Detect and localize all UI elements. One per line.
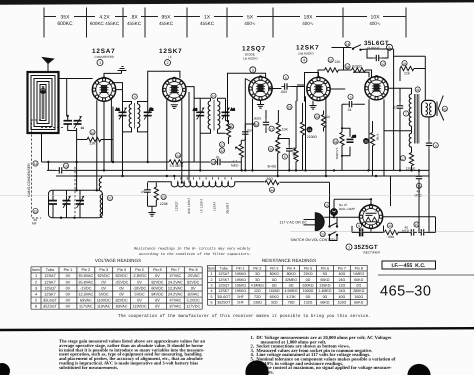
svg-text:.0005: .0005	[253, 116, 261, 120]
svg-text:103Ω: 103Ω	[337, 301, 346, 305]
junction dots power	[333, 198, 372, 218]
svg-text:1200Ω: 1200Ω	[406, 166, 416, 170]
svg-text:0Ω: 0Ω	[289, 284, 294, 288]
svg-text:0V: 0V	[66, 298, 71, 302]
svg-text:RECTIFIER: RECTIFIER	[364, 250, 381, 254]
V3 cathode ground	[257, 100, 264, 108]
circled 29	[287, 104, 292, 109]
svg-text:21: 21	[108, 197, 112, 201]
svg-text:39Ω: 39Ω	[267, 177, 274, 181]
svg-text:0Ω: 0Ω	[306, 278, 311, 282]
circled 23	[161, 194, 166, 199]
svg-text:600KC: 600KC	[57, 21, 73, 27]
label 40 MF	[32, 218, 37, 226]
svg-text:12SK7: 12SK7	[218, 278, 229, 282]
svg-text:0V: 0V	[137, 280, 142, 284]
circled 31	[307, 127, 312, 132]
circled 16b	[416, 183, 421, 188]
svg-text:47VAC: 47VAC	[169, 298, 181, 302]
svg-text:16: 16	[81, 126, 85, 130]
svg-text:2: 2	[35, 280, 37, 284]
cap .02 plate V5	[392, 101, 403, 171]
svg-text:22K: 22K	[335, 60, 342, 64]
svg-text:5VDC: 5VDC	[99, 292, 109, 296]
T1 vertical wires	[123, 71, 180, 176]
svg-text:117VAC: 117VAC	[79, 305, 93, 309]
svg-text:35Z5GT: 35Z5GT	[217, 301, 231, 305]
circled 4	[301, 57, 307, 63]
circled 6	[283, 75, 288, 80]
circled 30	[268, 146, 273, 151]
svg-text:63VAC: 63VAC	[80, 298, 92, 302]
svg-text:10X: 10X	[371, 15, 381, 21]
svg-text:35.8VAC: 35.8VAC	[78, 280, 93, 284]
T2 vertical wires	[200, 121, 228, 171]
circled 10b	[63, 163, 68, 168]
svg-text:12SQ7: 12SQ7	[175, 201, 179, 211]
svg-text:Resistance readings in the B–: Resistance readings in the B– circuits m…	[134, 247, 251, 252]
svg-text:Pin 6: Pin 6	[153, 268, 162, 272]
pilot lamp	[331, 209, 338, 216]
svg-text:0Ω: 0Ω	[356, 284, 361, 288]
svg-text:A4: A4	[231, 108, 235, 112]
svg-text:30: 30	[269, 148, 273, 152]
cap .0005	[253, 110, 269, 133]
svg-text:0V: 0V	[137, 298, 142, 302]
svg-text:455KC: 455KC	[200, 21, 215, 26]
circled 10	[211, 93, 216, 98]
svg-text:12SQ7: 12SQ7	[218, 284, 229, 288]
circled 1	[97, 60, 103, 66]
tube V2 12SK7	[163, 77, 186, 102]
svg-text:.05: .05	[215, 156, 220, 160]
bus heater cord	[148, 182, 330, 218]
junction dots on buses	[47, 161, 420, 184]
svg-text:31: 31	[308, 128, 312, 132]
label 12SK7 2nd audio	[296, 45, 320, 56]
svg-text:7: 7	[405, 112, 407, 116]
svg-text:119VDC: 119VDC	[133, 305, 147, 309]
tube V6 35Z5GT rectifier	[359, 204, 382, 229]
svg-text:15: 15	[34, 210, 38, 214]
svg-text:Pin 2: Pin 2	[253, 266, 261, 270]
tube V5 35L6GT	[365, 75, 388, 100]
filament string	[171, 182, 235, 187]
svg-text:22K: 22K	[404, 72, 411, 76]
svg-text:82VDC: 82VDC	[98, 274, 110, 278]
svg-text:8200Ω: 8200Ω	[352, 65, 363, 69]
svg-text:400∿: 400∿	[369, 21, 381, 26]
svg-text:400∿: 400∿	[244, 21, 256, 26]
svg-text:Pin 7: Pin 7	[171, 268, 180, 272]
svg-text:0Ω: 0Ω	[272, 284, 277, 288]
svg-text:1: 1	[348, 246, 350, 250]
svg-text:12Ω: 12Ω	[254, 289, 261, 293]
V2 cathode ground	[171, 105, 178, 109]
svg-text:AVC 12SK7: AVC 12SK7	[187, 197, 191, 214]
svg-text:5.2VDC: 5.2VDC	[187, 298, 201, 302]
svg-text:66KΩ: 66KΩ	[270, 295, 279, 299]
series cap 10 in bus	[56, 167, 65, 173]
svg-text:.02: .02	[392, 106, 397, 110]
punch hole center	[245, 360, 268, 375]
svg-text:Pin 1: Pin 1	[64, 268, 73, 272]
svg-text:5X: 5X	[247, 15, 254, 21]
svg-text:130Ω: 130Ω	[253, 301, 262, 305]
svg-text:substituted for measurements.: substituted for measurements.	[59, 365, 118, 370]
svg-text:0V: 0V	[101, 280, 106, 284]
svg-text:66KΩ: 66KΩ	[354, 301, 363, 305]
circled 13a	[33, 161, 38, 166]
svg-text:23: 23	[162, 196, 166, 200]
svg-text:according to the condition of: according to the condition of the filter…	[139, 252, 251, 257]
electrolytic 40MFD lower	[402, 225, 436, 235]
series cap in AVC	[214, 156, 223, 166]
junction dot grid	[67, 115, 69, 117]
resistor 1.5MEG grid V5	[335, 104, 344, 170]
svg-text:0V: 0V	[66, 274, 71, 278]
tuning capacitor C1A	[64, 116, 73, 126]
italic note about resistance readings	[134, 247, 251, 258]
svg-text:32Ω: 32Ω	[271, 301, 278, 305]
ground bias	[148, 206, 157, 216]
circled 20	[90, 130, 95, 135]
AVC wire down from 22K	[112, 107, 114, 163]
svg-text:20: 20	[327, 115, 331, 119]
label 35L6GT output	[364, 40, 389, 50]
svg-text:82VDC: 82VDC	[187, 280, 199, 284]
cathode bypass resistor right	[321, 111, 330, 132]
svg-text:195KΩ: 195KΩ	[235, 272, 246, 276]
model number 465-30	[380, 284, 431, 300]
svg-text:465–30: 465–30	[380, 284, 431, 300]
svg-text:4.7 MEG: 4.7 MEG	[293, 147, 297, 160]
osc padder trimmers	[49, 190, 84, 217]
svg-text:400∿: 400∿	[302, 21, 314, 26]
IF transformer T2	[200, 98, 225, 133]
svg-text:I.F.: I.F.	[168, 55, 172, 59]
bottom left paragraph	[59, 339, 205, 370]
circled 26a on AVC	[211, 159, 216, 164]
svg-text:0V: 0V	[66, 305, 71, 309]
T2 trimmer A4	[222, 98, 235, 120]
svg-text:14: 14	[346, 42, 350, 46]
svg-text:4.2X: 4.2X	[99, 15, 110, 21]
svg-text:0V: 0V	[66, 280, 71, 284]
svg-text:35L6GT: 35L6GT	[226, 203, 230, 214]
V4 cathode resistor 2200	[300, 103, 317, 170]
IF-455 KC box	[382, 261, 436, 269]
circled 34	[333, 139, 338, 144]
V2 pin wires	[167, 92, 189, 183]
tube V3 12SQ7	[249, 75, 272, 100]
svg-text:12.3VAC: 12.3VAC	[78, 292, 93, 296]
volume control 4.7MEG	[231, 140, 243, 170]
svg-text:The cooperation of the manufac: The cooperation of the manufacturer of t…	[118, 313, 371, 319]
svg-text:-1VDC: -1VDC	[80, 286, 92, 290]
svg-text:160Ω: 160Ω	[354, 295, 363, 299]
svg-text:MEG: MEG	[231, 163, 239, 167]
svg-text:470K: 470K	[375, 134, 379, 141]
bus B minus	[56, 175, 429, 177]
dial ruler labels	[56, 14, 383, 28]
svg-text:1000Ω: 1000Ω	[303, 289, 314, 293]
circled 7	[403, 111, 408, 116]
svg-text:4: 4	[35, 292, 37, 296]
svg-text:10K: 10K	[282, 128, 289, 132]
circled 8b	[433, 143, 438, 148]
T1 trimmer A2	[144, 102, 154, 132]
circled 1b	[346, 244, 352, 250]
svg-text:-2.8VDC: -2.8VDC	[132, 274, 147, 278]
svg-text:6: 6	[35, 305, 37, 309]
svg-text:41: 41	[416, 88, 420, 92]
tuning trimmer 16	[74, 116, 82, 129]
circled 27	[219, 142, 224, 147]
svg-text:60VDC: 60VDC	[151, 286, 163, 290]
svg-text:VOLTAGE READINGS: VOLTAGE READINGS	[95, 258, 141, 263]
svg-text:1st AUDIO: 1st AUDIO	[243, 56, 258, 60]
cap .05 parallel	[342, 128, 356, 156]
tube V4 12SK7	[307, 76, 330, 101]
svg-text:117 V AC OR DC: 117 V AC OR DC	[280, 220, 308, 224]
svg-text:455KC: 455KC	[127, 21, 142, 26]
svg-text:Pin 8: Pin 8	[189, 268, 198, 272]
voltage readings table title	[95, 258, 141, 263]
svg-text:0Ω: 0Ω	[306, 295, 311, 299]
svg-text:Pin 5: Pin 5	[304, 266, 312, 270]
label B+55	[267, 164, 280, 169]
svg-text:135KΩ: 135KΩ	[319, 284, 330, 288]
svg-text:12SK7: 12SK7	[44, 292, 55, 296]
svg-text:0V: 0V	[119, 286, 124, 290]
svg-text:A1: A1	[116, 108, 120, 112]
circled 21b	[269, 126, 274, 131]
tone cap	[367, 49, 388, 61]
svg-text:0Ω: 0Ω	[272, 278, 277, 282]
svg-text:12SA7: 12SA7	[213, 201, 217, 211]
svg-text:30VAC: 30VAC	[187, 292, 199, 296]
svg-text:4: 4	[303, 59, 305, 63]
svg-text:530KΩ: 530KΩ	[302, 284, 313, 288]
svg-text:1X: 1X	[204, 15, 211, 21]
wire loop to grid	[59, 79, 93, 117]
svg-text:1: 1	[99, 61, 101, 65]
svg-text:5: 5	[35, 298, 37, 302]
electrolytic 40MFD upper	[415, 170, 423, 197]
svg-text:1: 1	[35, 274, 37, 278]
cap filter right	[426, 117, 432, 232]
svg-text:12Ω: 12Ω	[338, 284, 345, 288]
T2 trimmer A3	[193, 98, 204, 133]
svg-text:21: 21	[270, 127, 274, 131]
coupling cap .01	[342, 101, 365, 112]
resistor 3.3MEG in AVC	[169, 160, 184, 168]
svg-text:117VDC: 117VDC	[186, 305, 200, 309]
circled 26	[345, 64, 350, 69]
V1 grid cap wire	[104, 73, 122, 78]
cap 0.1MF	[278, 139, 295, 171]
svg-text:78Ω: 78Ω	[288, 301, 295, 305]
gang condenser dashed box	[32, 120, 76, 218]
svg-text:72Ω: 72Ω	[254, 295, 261, 299]
resistor 220K bias	[154, 183, 168, 207]
svg-text:82VDC: 82VDC	[116, 298, 128, 302]
svg-text:Tube: Tube	[46, 268, 55, 272]
svg-text:44: 44	[270, 188, 274, 192]
label 16	[81, 126, 85, 130]
faint scan lines	[0, 195, 474, 231]
svg-text:5: 5	[284, 155, 286, 159]
svg-text:0V: 0V	[155, 298, 160, 302]
svg-text:Item: Item	[208, 266, 215, 270]
svg-text:8: 8	[134, 95, 136, 99]
diode caps 250	[242, 129, 252, 138]
svg-text:33: 33	[315, 115, 319, 119]
circled 32	[219, 148, 224, 153]
svg-text:10: 10	[64, 164, 68, 168]
circled 20b	[320, 231, 325, 236]
svg-text:3: 3	[211, 284, 213, 288]
svg-text:455KC: 455KC	[159, 21, 174, 26]
svg-text:119VAC: 119VAC	[97, 305, 111, 309]
circled 3b	[348, 94, 353, 99]
svg-text:Pin 4: Pin 4	[117, 268, 126, 272]
gang condenser label	[27, 163, 31, 197]
punch hole right	[407, 364, 430, 375]
grid cap comb	[118, 67, 127, 74]
voltage readings table	[31, 267, 202, 309]
svg-text:6: 6	[211, 301, 213, 305]
svg-text:280KΩ: 280KΩ	[353, 289, 364, 293]
svg-text:80KΩ: 80KΩ	[287, 272, 296, 276]
circled 33	[314, 114, 319, 119]
circled 21	[107, 195, 112, 200]
svg-text:20: 20	[321, 233, 325, 237]
svg-text:12SA7: 12SA7	[218, 272, 229, 276]
svg-text:5Ω: 5Ω	[323, 272, 328, 276]
svg-text:5: 5	[211, 295, 213, 299]
oscillator section loop	[49, 190, 103, 217]
svg-text:12SQ7: 12SQ7	[44, 286, 56, 290]
resistor 4.7MEG grid V4	[293, 101, 299, 171]
svg-text:3: 3	[252, 69, 254, 73]
circled 15	[33, 208, 38, 213]
svg-text:11: 11	[329, 58, 333, 62]
svg-text:600KC 455KC: 600KC 455KC	[90, 21, 120, 26]
svg-text:.05: .05	[141, 190, 146, 194]
svg-text:35L6GT: 35L6GT	[217, 295, 231, 299]
svg-text:.003: .003	[280, 90, 287, 94]
svg-text:13: 13	[34, 162, 38, 166]
svg-text:2: 2	[166, 61, 168, 65]
grid resistor 22K	[77, 137, 113, 145]
svg-text:195KΩ: 195KΩ	[235, 278, 246, 282]
circled 9b	[356, 223, 361, 228]
svg-text:-10VDC: -10VDC	[133, 286, 147, 290]
circled 2	[165, 60, 171, 66]
svg-text:5VDC: 5VDC	[134, 292, 144, 296]
svg-text:0V: 0V	[101, 286, 106, 290]
svg-text:A2: A2	[149, 108, 153, 112]
svg-text:24.2VAC: 24.2VAC	[168, 280, 183, 284]
svg-text:3Ω: 3Ω	[255, 278, 260, 282]
speaker cone	[437, 96, 444, 121]
circled 25	[228, 124, 233, 129]
T1 trimmer A1	[116, 102, 127, 132]
loop antenna L1	[28, 72, 59, 133]
svg-text:RESISTANCE READINGS: RESISTANCE READINGS	[262, 258, 316, 263]
svg-text:34: 34	[334, 140, 338, 144]
svg-text:10: 10	[212, 94, 216, 98]
svg-text:82VDC: 82VDC	[116, 274, 128, 278]
power wiring	[324, 199, 371, 240]
tube V1 12SA7	[92, 77, 115, 102]
svg-text:GANG CONDENSER: GANG CONDENSER	[27, 163, 31, 197]
svg-text:9: 9	[358, 224, 360, 228]
V4 cathode ground	[309, 101, 316, 109]
power plug	[304, 213, 325, 231]
resistor 10K	[276, 110, 288, 139]
svg-text:.05: .05	[352, 134, 357, 138]
dial stringing ruler line	[44, 8, 406, 38]
V3 top wire	[228, 73, 266, 122]
svg-text:22KΩ: 22KΩ	[303, 272, 312, 276]
svg-text:4.23K: 4.23K	[286, 295, 296, 299]
oscillator coil secondary	[100, 195, 102, 218]
svg-text:35.8VAC: 35.8VAC	[78, 274, 93, 278]
svg-text:6: 6	[285, 76, 287, 80]
label 35Z5GT	[354, 244, 381, 254]
svg-text:220K: 220K	[160, 202, 169, 206]
thick separator line	[0, 328, 474, 330]
circled 12	[380, 61, 385, 66]
svg-text:42: 42	[443, 107, 447, 111]
svg-text:25: 25	[229, 125, 233, 129]
circled 17	[400, 156, 405, 161]
svg-text:Pin 8: Pin 8	[355, 266, 363, 270]
svg-text:47VAC: 47VAC	[169, 274, 181, 278]
filament tick marks	[175, 177, 232, 179]
resistor 1200	[406, 150, 416, 170]
circled 8	[132, 94, 137, 99]
svg-text:MF: MF	[32, 222, 37, 226]
svg-text:24Ω: 24Ω	[338, 278, 345, 282]
svg-text:12: 12	[381, 62, 385, 66]
svg-text:2000: 2000	[275, 145, 279, 152]
svg-text:20: 20	[91, 131, 95, 135]
svg-text:.01: .01	[347, 108, 352, 112]
cap .003 coupling	[280, 83, 290, 94]
svg-text:Pin 6: Pin 6	[321, 266, 329, 270]
svg-text:28: 28	[403, 62, 407, 66]
svg-text:33Ω: 33Ω	[388, 235, 395, 239]
svg-text:1HF: 1HF	[237, 301, 245, 305]
svg-text:0V: 0V	[66, 286, 71, 290]
svg-text:½MEG: ½MEG	[353, 272, 364, 276]
output transformer T3 primary	[400, 88, 419, 143]
svg-text:3Ω: 3Ω	[255, 272, 260, 276]
svg-text:40Ω: 40Ω	[338, 295, 345, 299]
circled 41	[415, 87, 420, 92]
svg-text:Pin 4: Pin 4	[287, 266, 295, 270]
svg-text:0V: 0V	[155, 274, 160, 278]
resistor 2000	[275, 140, 280, 176]
power switch	[328, 223, 338, 236]
resistor 22K plate V4	[318, 60, 345, 78]
osc box junction dots	[60, 189, 98, 219]
wire vol top	[241, 124, 255, 140]
